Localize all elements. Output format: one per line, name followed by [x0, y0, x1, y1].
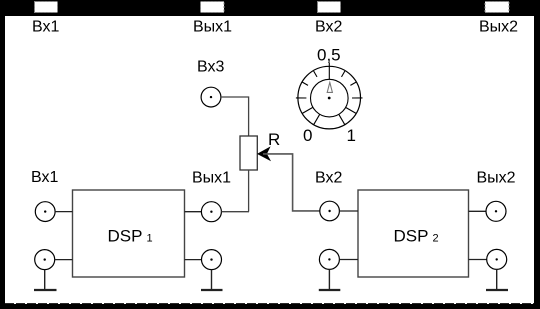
- terminal DSP1 lower-right: [202, 250, 222, 270]
- knob dial tick 8 o'clock: [302, 107, 313, 113]
- wire Вх2 terminal to DSP2: [339, 210, 358, 212]
- svg-text:Вх1: Вх1: [31, 169, 58, 186]
- knob center dot: [328, 97, 331, 100]
- knob dial tick 10 o'clock: [302, 82, 308, 85]
- wire DSP1 to lower-right terminal: [185, 259, 202, 261]
- terminal DSP2 lower-left: [319, 249, 339, 269]
- svg-text:DSP: DSP: [108, 226, 143, 245]
- panel connector notch Вых1: [201, 2, 225, 13]
- ground DSP2 right: [486, 289, 508, 291]
- wire Вых1 terminal to resistor branch: [221, 211, 249, 213]
- svg-text:2: 2: [433, 232, 439, 244]
- knob dial tick 2 o'clock: [350, 82, 356, 85]
- knob dial tick 3 o'clock: [352, 97, 363, 99]
- terminal DSP2 lower-right: [487, 249, 507, 269]
- wire DSP2 to Вых2 terminal: [469, 210, 487, 212]
- svg-text:R: R: [268, 130, 280, 149]
- frame top bar: [0, 0, 540, 16]
- ground DSP1 right: [201, 289, 223, 291]
- ground lead DSP1 left: [44, 270, 46, 290]
- svg-text:0,5: 0,5: [317, 46, 341, 65]
- ground DSP1 left: [34, 289, 57, 291]
- knob dial tick 1 o'clock: [342, 71, 345, 77]
- ground lead DSP2 left: [328, 269, 330, 290]
- terminal Вх3: [201, 87, 221, 107]
- knob dial tick 11 o'clock: [314, 71, 317, 77]
- DSP2 block U2: [358, 190, 469, 277]
- wire DSP1 to Вых1 terminal: [185, 211, 202, 213]
- svg-text:Вх3: Вх3: [197, 59, 224, 76]
- wire DSP2 to lower-right terminal: [469, 259, 487, 261]
- wire DSP2 lower-left terminal to DSP2: [339, 259, 358, 261]
- svg-text:Вых2: Вых2: [477, 170, 516, 187]
- terminal Вых2: [486, 201, 506, 221]
- frame bottom bar: [0, 304, 540, 309]
- DSP1 block U1: [73, 190, 185, 277]
- frame left border: [0, 0, 5, 309]
- knob dial tick 9 o'clock: [296, 97, 307, 99]
- svg-text:Вых1: Вых1: [192, 170, 231, 187]
- svg-text:DSP: DSP: [394, 226, 429, 245]
- svg-text:Вых1: Вых1: [193, 19, 232, 36]
- svg-text:1: 1: [147, 232, 153, 244]
- knob dial tick 4 o'clock: [346, 107, 357, 113]
- terminal Вых1: [201, 202, 221, 222]
- wire DSP1 lower-left terminal to DSP1: [55, 259, 73, 261]
- svg-text:1: 1: [347, 126, 356, 145]
- terminal Вх2: [320, 201, 340, 221]
- knob dial tick 5 o'clock: [339, 114, 345, 125]
- wire resistor bottom to Вых1 node: [248, 170, 250, 212]
- resistor R (potentiometer body): [240, 136, 257, 170]
- svg-text:0: 0: [303, 126, 312, 145]
- frame right border: [534, 0, 540, 309]
- svg-text:Вх1: Вх1: [32, 19, 59, 36]
- svg-text:Вх2: Вх2: [315, 170, 342, 187]
- terminal Вх1: [35, 202, 55, 222]
- knob dial tick 12 o'clock (0,5 mark): [328, 63, 330, 80]
- ground lead DSP1 right: [211, 270, 213, 290]
- knob pointer arrow: [327, 82, 332, 92]
- wire Вх3 to resistor top: [221, 97, 249, 136]
- panel connector notch Вх1: [35, 2, 58, 13]
- panel connector notch Вых2: [485, 2, 509, 13]
- wire Вх1 terminal to DSP1: [55, 211, 72, 213]
- knob dial tick 7 o'clock: [314, 114, 320, 125]
- ground lead DSP2 right: [496, 269, 498, 290]
- wire wiper to Вх2 node: [263, 154, 320, 211]
- terminal DSP1 lower-left: [35, 250, 55, 270]
- knob dial outer circle: [298, 66, 361, 129]
- potentiometer wiper arrowhead: [258, 147, 271, 160]
- knob dial inner circle: [311, 79, 349, 117]
- svg-text:Вых2: Вых2: [479, 19, 518, 36]
- ground DSP2 left: [319, 289, 341, 291]
- svg-text:Вх2: Вх2: [315, 19, 342, 36]
- panel connector notch Вх2: [318, 2, 341, 13]
